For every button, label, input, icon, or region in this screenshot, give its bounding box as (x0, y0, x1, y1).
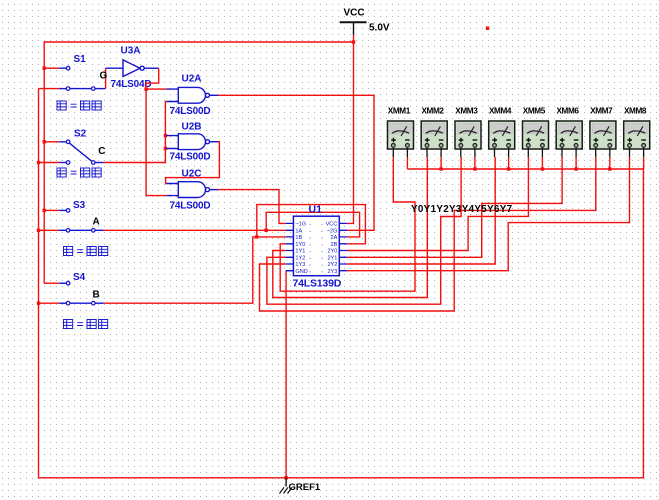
svg-text:VCC: VCC (326, 222, 338, 228)
svg-text:C: C (98, 146, 105, 157)
wire XMM6 terminal stubs (562, 148, 576, 157)
label key=space S1 (57, 101, 101, 110)
junction VCC rail S3 tap (43, 209, 46, 212)
wire U3A output down-jog to Gbar vertical (146, 68, 166, 195)
switch S4 (39, 281, 104, 305)
wire XMM4 terminal stubs (495, 148, 509, 157)
wire Y5 net 2Y1 to XMM6 plus (347, 157, 562, 257)
wire XMM2 minus to rail (440, 157, 442, 169)
svg-text:XMM2: XMM2 (422, 107, 445, 116)
svg-text:Y0Y1Y2Y3Y4Y5Y6Y7: Y0Y1Y2Y3Y4Y5Y6Y7 (411, 204, 513, 215)
wire C branch to U2B input 1 (165, 135, 166, 137)
svg-text:1A: 1A (295, 228, 302, 234)
svg-text:5.0V: 5.0V (369, 23, 390, 34)
wire U2B output to U2C top input (166, 142, 220, 184)
power VCC symbol (340, 22, 367, 35)
svg-text:1Y3: 1Y3 (295, 262, 305, 268)
label key=space S3 (64, 247, 108, 256)
svg-text:1Y0: 1Y0 (295, 242, 305, 248)
svg-text:XMM5: XMM5 (523, 107, 546, 116)
wire S3 bottom throw stub from ground rail (39, 229, 60, 231)
wire S2 top throw stub from VCC rail (44, 141, 59, 143)
junction VCC rail S1 tap (43, 67, 46, 70)
wire VCC horizontal rail to left (44, 42, 353, 283)
wire S3 top throw stub from VCC rail (44, 209, 59, 211)
svg-text:2Y2: 2Y2 (327, 262, 337, 268)
svg-text:U3A: U3A (121, 46, 141, 57)
NAND gate U2A 74LS00D (166, 87, 218, 103)
svg-text:GREF1: GREF1 (289, 482, 321, 493)
junction minus rail XMM4 (507, 167, 510, 170)
junction C at U2B input 2 (164, 147, 167, 150)
wire S1 top throw stub from VCC rail (44, 67, 59, 69)
multimeter XMM1 (388, 121, 414, 149)
ground GREF1 (280, 478, 293, 494)
svg-text:2Y0: 2Y0 (327, 249, 337, 255)
junction VCC node (352, 40, 355, 43)
svg-text:2B: 2B (331, 242, 338, 248)
wire Y0 net 1Y0 to XMM1 plus (280, 157, 415, 291)
wire VCC drop to U1 VCC pin (347, 35, 353, 224)
svg-text:74LS00D: 74LS00D (170, 152, 211, 163)
multimeter XMM2 (421, 121, 447, 149)
wire Gbar branch to U2A top input (146, 88, 166, 90)
svg-text:~1G: ~1G (295, 222, 306, 228)
svg-text:XMM3: XMM3 (455, 107, 478, 116)
junction ground rail S4 tap (37, 302, 40, 305)
wire Y7 net 2Y3 to XMM8 plus (347, 157, 629, 271)
wire B net S4 pole to U1 1B pin (104, 237, 286, 303)
svg-text:74LS00D: 74LS00D (170, 106, 211, 117)
IC U1 74LS139D (286, 216, 348, 276)
wire A bridge 1A to 2A (266, 212, 359, 237)
junction ground rail at GREF1 (284, 476, 287, 479)
svg-text:U2B: U2B (182, 122, 202, 133)
wire GND pin drop to ground rail (285, 271, 287, 478)
junction minus rail XMM6 (574, 167, 577, 170)
junction minus rail XMM2 (439, 167, 442, 170)
svg-text:S2: S2 (74, 129, 87, 140)
multimeter XMM5 (523, 121, 549, 149)
wire XMM4 minus to rail (508, 157, 510, 169)
wire U3A output stub (144, 67, 159, 69)
svg-text:XMM7: XMM7 (590, 107, 613, 116)
wire C net from S2 pole up to U2A lower input (104, 102, 167, 163)
svg-text:1B: 1B (295, 235, 302, 241)
wire Y4 net 2Y0 to XMM5 plus (347, 157, 528, 251)
multimeter XMM7 (590, 121, 616, 149)
junction ground rail S3 tap (37, 229, 40, 232)
junction minus rail XMM3 (473, 167, 476, 170)
svg-text:G: G (100, 71, 108, 82)
junction minus rail XMM5 (541, 167, 544, 170)
wire Y1 net 1Y1 to XMM2 plus (273, 157, 428, 298)
switch S1 (39, 66, 106, 90)
wire A net S3 pole to U1 1A pin (104, 229, 286, 231)
svg-text:GND: GND (295, 269, 307, 275)
wire ground left rail + bottom rail + right riser + meter minus rail (39, 89, 644, 478)
svg-text:74LS00D: 74LS00D (170, 201, 211, 212)
wire XMM7 minus to rail (609, 157, 611, 169)
wire XMM3 terminal stubs (461, 148, 475, 157)
wire Y6 net 2Y2 to XMM4 plus (347, 157, 495, 264)
wire Y3 net 1Y3 to XMM7 plus (260, 157, 596, 311)
wire node G riser from S1 pole (105, 68, 107, 88)
svg-text:U2A: U2A (182, 74, 202, 85)
wire U2C output to U1 ~1G pin (218, 190, 286, 224)
svg-text:XMM8: XMM8 (624, 107, 647, 116)
wire XMM7 terminal stubs (596, 148, 610, 157)
wire S4 bottom throw stub from ground rail (39, 302, 60, 304)
label key=space S4 (64, 320, 108, 329)
svg-text:1Y1: 1Y1 (295, 249, 305, 255)
svg-text:B: B (93, 290, 100, 301)
node stray junction (486, 27, 489, 30)
junction ground rail S2 tap (37, 161, 40, 164)
wire U2A output to U1 ~2G pin (218, 95, 374, 230)
svg-text:U2C: U2C (182, 169, 202, 180)
svg-text:VCC: VCC (344, 8, 365, 19)
junction minus rail XMM7 (608, 167, 611, 170)
svg-text:74LS139D: 74LS139D (293, 278, 342, 290)
NAND gate U2C 74LS00D (166, 182, 218, 198)
wire XMM6 minus to rail (575, 157, 577, 169)
wire XMM2 terminal stubs (427, 148, 441, 157)
multimeter XMM3 (455, 121, 481, 149)
svg-text:2A: 2A (331, 235, 338, 241)
wire XMM8 terminal stubs (630, 148, 644, 157)
svg-text:2Y3: 2Y3 (327, 269, 337, 275)
wire XMM1 minus to rail (406, 157, 408, 169)
svg-text:A: A (93, 217, 100, 228)
switch S3 (39, 209, 104, 233)
NAND gate U2B 74LS00D (166, 134, 218, 150)
switch S2 (39, 140, 104, 164)
junction A at 1A (265, 229, 268, 232)
wire S2 bottom throw stub from ground rail (39, 162, 60, 164)
svg-text:XMM1: XMM1 (388, 107, 411, 116)
label key=space S2 (57, 168, 101, 177)
wire G net into U3A input (106, 67, 123, 69)
junction VCC rail S2 tap (43, 140, 46, 143)
svg-text:S1: S1 (74, 54, 87, 65)
svg-text:S4: S4 (73, 272, 86, 283)
svg-text:S3: S3 (73, 200, 86, 211)
multimeter XMM4 (489, 121, 515, 149)
op-amp U3A inverter 74LS04D (123, 60, 140, 77)
wire XMM5 terminal stubs (528, 148, 542, 157)
wire B bridge 1B to 2B (257, 205, 366, 244)
wire XMM1 terminal stubs (393, 148, 407, 157)
svg-text:XMM6: XMM6 (557, 107, 580, 116)
wire XMM3 minus to rail (474, 157, 476, 169)
junction C at U2B input 1 (164, 134, 167, 137)
junction Gbar at U2A branch (144, 87, 147, 90)
svg-text:1Y2: 1Y2 (295, 255, 305, 261)
wire S4 top throw stub from VCC rail (44, 282, 59, 284)
junction B at 1B (255, 235, 258, 238)
svg-text:XMM4: XMM4 (489, 107, 512, 116)
wire S1 bottom throw stub from ground rail (39, 88, 60, 90)
wire XMM5 minus to rail (541, 157, 543, 169)
wire XMM8 minus to rail (643, 157, 645, 169)
svg-text:~2G: ~2G (327, 228, 338, 234)
multimeter XMM6 (556, 121, 582, 149)
svg-text:2Y1: 2Y1 (327, 255, 337, 261)
multimeter XMM8 (624, 121, 650, 149)
svg-text:U1: U1 (309, 204, 323, 216)
wire C branch to U2B input 2 (165, 148, 166, 150)
wire Y2 net 1Y2 to XMM3 plus (267, 157, 461, 304)
